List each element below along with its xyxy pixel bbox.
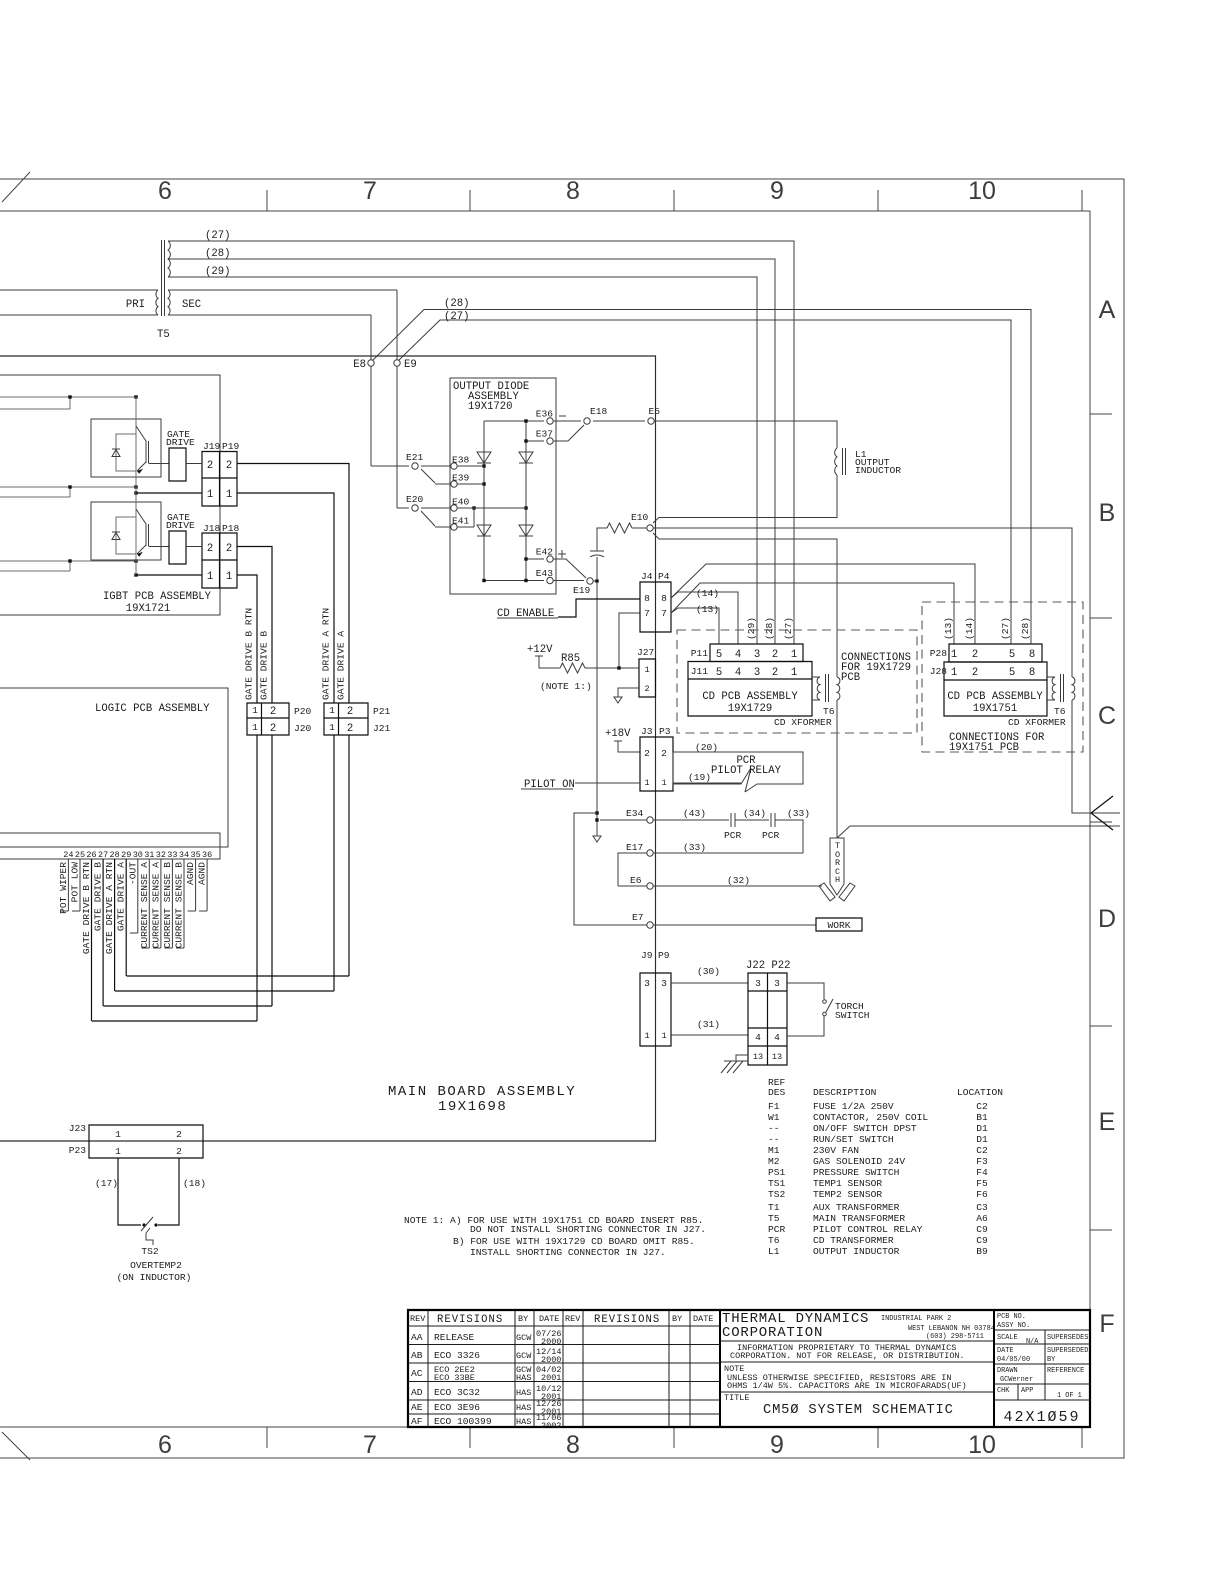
svg-text:2001: 2001	[541, 1373, 561, 1383]
svg-text:A: A	[1099, 296, 1116, 324]
svg-text:C2: C2	[976, 1101, 988, 1112]
svg-text:PRI: PRI	[126, 299, 145, 311]
svg-text:(603) 298-5711: (603) 298-5711	[926, 1333, 984, 1341]
svg-text:E10: E10	[631, 512, 649, 523]
svg-text:32: 32	[156, 850, 166, 860]
svg-text:AGND: AGND	[197, 862, 208, 885]
svg-text:AGND: AGND	[185, 862, 196, 885]
svg-text:GATE DRIVE B RTN: GATE DRIVE B RTN	[81, 862, 92, 954]
svg-text:CORPORATION: CORPORATION	[722, 1325, 823, 1341]
svg-text:8: 8	[1029, 649, 1035, 661]
svg-text:T5: T5	[157, 329, 170, 341]
svg-text:19X1751: 19X1751	[973, 703, 1018, 715]
svg-text:1: 1	[644, 665, 649, 675]
svg-text:(33): (33)	[787, 808, 810, 819]
svg-text:3: 3	[644, 978, 650, 989]
svg-text:ECO 3C32: ECO 3C32	[434, 1387, 480, 1398]
svg-text:CONTACTOR, 250V COIL: CONTACTOR, 250V COIL	[813, 1112, 928, 1123]
svg-text:HAS: HAS	[516, 1403, 531, 1413]
svg-text:(28): (28)	[444, 298, 469, 310]
svg-text:E38: E38	[452, 455, 470, 466]
svg-text:E37: E37	[536, 429, 553, 440]
svg-text:TS2: TS2	[768, 1189, 786, 1200]
svg-text:CORPORATION. NOT FOR RELEASE,: CORPORATION. NOT FOR RELEASE, OR DISTRIB…	[730, 1351, 965, 1361]
svg-text:4: 4	[774, 1032, 780, 1043]
svg-text:PCR: PCR	[768, 1224, 786, 1235]
svg-text:P21: P21	[373, 706, 391, 717]
svg-text:7: 7	[363, 177, 377, 205]
svg-text:PILOT RELAY: PILOT RELAY	[711, 765, 782, 777]
svg-text:9: 9	[770, 177, 784, 205]
svg-text:8: 8	[644, 593, 650, 604]
svg-text:J19: J19	[203, 441, 221, 452]
svg-text:INDUCTOR: INDUCTOR	[855, 465, 901, 476]
svg-text:2: 2	[176, 1129, 182, 1140]
svg-text:1: 1	[951, 667, 957, 679]
svg-text:2: 2	[772, 667, 778, 679]
svg-text:HAS: HAS	[516, 1373, 531, 1383]
svg-text:36: 36	[202, 850, 212, 860]
svg-text:19X1721: 19X1721	[126, 603, 171, 615]
svg-text:F6: F6	[976, 1189, 988, 1200]
svg-text:AF: AF	[411, 1416, 423, 1427]
svg-text:(29): (29)	[205, 266, 230, 278]
svg-text:GCWerner: GCWerner	[1000, 1376, 1033, 1384]
svg-text:(28): (28)	[205, 248, 230, 260]
svg-text:(20): (20)	[695, 742, 718, 753]
svg-text:E9: E9	[404, 359, 417, 371]
svg-text:AB: AB	[411, 1350, 423, 1361]
svg-text:HAS: HAS	[516, 1417, 531, 1427]
svg-text:P18: P18	[222, 523, 240, 534]
svg-text:30: 30	[133, 850, 143, 860]
svg-text:SCALE: SCALE	[997, 1334, 1018, 1342]
svg-text:(28): (28)	[764, 617, 775, 640]
svg-text:E39: E39	[452, 473, 470, 484]
svg-text:E36: E36	[536, 409, 554, 420]
svg-text:4: 4	[755, 1032, 761, 1043]
svg-text:SWITCH: SWITCH	[835, 1010, 870, 1021]
svg-text:(19): (19)	[688, 772, 711, 783]
svg-text:B1: B1	[976, 1112, 988, 1123]
svg-text:H: H	[835, 875, 840, 885]
svg-text:DATE: DATE	[997, 1347, 1014, 1355]
svg-text:C2: C2	[976, 1145, 988, 1156]
svg-text:HAS: HAS	[516, 1388, 531, 1398]
svg-text:2: 2	[644, 748, 650, 759]
svg-text:E5: E5	[648, 406, 660, 417]
svg-text:DATE: DATE	[539, 1314, 559, 1324]
svg-text:5: 5	[1009, 649, 1015, 661]
svg-text:GATE DRIVE B: GATE DRIVE B	[93, 862, 104, 931]
svg-text:1: 1	[329, 705, 335, 716]
svg-text:D: D	[1098, 905, 1116, 933]
svg-text:ECO 3326: ECO 3326	[434, 1350, 480, 1361]
svg-text:10: 10	[968, 177, 996, 205]
svg-text:3: 3	[754, 649, 760, 661]
svg-text:(NOTE 1:): (NOTE 1:)	[540, 681, 592, 692]
svg-text:F: F	[1099, 1310, 1114, 1338]
svg-text:19X1720: 19X1720	[468, 401, 513, 413]
svg-text:J27: J27	[637, 647, 654, 658]
svg-text:TS1: TS1	[768, 1178, 786, 1189]
svg-text:L1: L1	[768, 1246, 780, 1257]
svg-text:E7: E7	[632, 912, 644, 923]
svg-text:E18: E18	[590, 406, 608, 417]
svg-text:CD PCB ASSEMBLY: CD PCB ASSEMBLY	[947, 691, 1043, 703]
svg-text:P28: P28	[930, 648, 948, 659]
svg-text:7: 7	[661, 608, 667, 619]
svg-text:8: 8	[566, 1431, 580, 1459]
svg-text:OVERTEMP2: OVERTEMP2	[130, 1260, 182, 1271]
svg-text:2: 2	[207, 543, 213, 555]
svg-text:8: 8	[566, 177, 580, 205]
svg-text:GCW: GCW	[516, 1333, 532, 1343]
svg-text:CD TRANSFORMER: CD TRANSFORMER	[813, 1235, 894, 1246]
svg-text:A6: A6	[976, 1213, 988, 1224]
svg-text:31: 31	[144, 850, 154, 860]
svg-text:BY: BY	[1047, 1356, 1056, 1364]
svg-text:AUX TRANSFORMER: AUX TRANSFORMER	[813, 1202, 900, 1213]
svg-text:1: 1	[252, 705, 258, 716]
svg-text:J21: J21	[373, 723, 391, 734]
svg-text:GATE DRIVE A RTN: GATE DRIVE A RTN	[104, 862, 115, 954]
svg-text:E: E	[1099, 1108, 1116, 1136]
svg-text:N/A: N/A	[1026, 1338, 1039, 1346]
svg-text:OHMS 1/4W 5%. CAPACITORS ARE I: OHMS 1/4W 5%. CAPACITORS ARE IN MICROFAR…	[727, 1381, 967, 1391]
svg-text:(27): (27)	[205, 230, 230, 242]
svg-text:(30): (30)	[697, 966, 720, 977]
svg-text:5: 5	[1009, 667, 1015, 679]
svg-text:2: 2	[972, 649, 978, 661]
svg-text:REV: REV	[565, 1314, 581, 1324]
svg-text:B) FOR USE WITH 19X1729 CD BOA: B) FOR USE WITH 19X1729 CD BOARD OMIT R8…	[453, 1236, 695, 1247]
svg-text:CM5Ø SYSTEM SCHEMATIC: CM5Ø SYSTEM SCHEMATIC	[763, 1402, 954, 1418]
svg-text:P20: P20	[294, 706, 312, 717]
svg-text:ECO 33BE: ECO 33BE	[434, 1373, 475, 1383]
svg-text:19X1729: 19X1729	[728, 703, 773, 715]
svg-text:ECO 3E96: ECO 3E96	[434, 1402, 480, 1413]
svg-text:3: 3	[774, 978, 780, 989]
svg-text:MAIN BOARD ASSEMBLY: MAIN BOARD ASSEMBLY	[388, 1084, 576, 1100]
svg-text:J4: J4	[641, 571, 653, 582]
svg-text:J11: J11	[691, 666, 709, 677]
svg-text:--: --	[768, 1123, 780, 1134]
svg-text:APP: APP	[1021, 1387, 1033, 1395]
svg-text:2: 2	[270, 723, 276, 735]
svg-text:-OUT: -OUT	[127, 862, 138, 885]
svg-text:J28: J28	[930, 666, 948, 677]
svg-text:CURRENT SENSE B: CURRENT SENSE B	[174, 862, 185, 949]
svg-text:13: 13	[753, 1052, 763, 1062]
svg-text:6: 6	[158, 1431, 172, 1459]
svg-text:GATE DRIVE B: GATE DRIVE B	[259, 631, 270, 700]
svg-text:E6: E6	[630, 875, 642, 886]
svg-text:P3: P3	[659, 726, 671, 737]
svg-text:(17): (17)	[95, 1178, 118, 1189]
svg-text:REVISIONS: REVISIONS	[437, 1314, 503, 1326]
svg-text:(27): (27)	[444, 311, 469, 323]
svg-text:DO NOT INSTALL SHORTING CONNEC: DO NOT INSTALL SHORTING CONNECTOR IN J27…	[470, 1224, 706, 1235]
svg-text:LOGIC PCB ASSEMBLY: LOGIC PCB ASSEMBLY	[95, 703, 210, 715]
svg-text:1 OF 1: 1 OF 1	[1057, 1392, 1082, 1400]
svg-text:24: 24	[63, 850, 73, 860]
svg-text:1: 1	[252, 722, 258, 733]
svg-text:13: 13	[772, 1052, 782, 1062]
svg-text:F4: F4	[976, 1167, 988, 1178]
svg-text:IGBT PCB ASSEMBLY: IGBT PCB ASSEMBLY	[103, 591, 212, 603]
svg-text:DES: DES	[768, 1087, 786, 1098]
svg-text:(29): (29)	[746, 617, 757, 640]
svg-text:04/05/00: 04/05/00	[997, 1356, 1030, 1364]
svg-text:1: 1	[661, 778, 666, 788]
svg-text:(13): (13)	[943, 617, 954, 640]
svg-text:1: 1	[115, 1129, 121, 1140]
svg-text:J9: J9	[641, 950, 653, 961]
svg-text:(31): (31)	[697, 1019, 720, 1030]
svg-text:GATE DRIVE A: GATE DRIVE A	[336, 631, 347, 700]
svg-text:1: 1	[207, 571, 213, 583]
svg-text:1: 1	[951, 649, 957, 661]
svg-text:8: 8	[661, 593, 667, 604]
svg-text:2000: 2000	[541, 1337, 561, 1347]
svg-text:CURRENT SENSE A: CURRENT SENSE A	[139, 862, 150, 949]
svg-text:E20: E20	[406, 494, 424, 505]
svg-text:19X1698: 19X1698	[438, 1099, 507, 1115]
svg-text:REV: REV	[410, 1314, 426, 1324]
svg-text:AE: AE	[411, 1402, 423, 1413]
svg-text:ECO 100399: ECO 100399	[434, 1416, 492, 1427]
svg-text:GATE DRIVE A RTN: GATE DRIVE A RTN	[321, 608, 332, 700]
svg-text:M2: M2	[768, 1156, 780, 1167]
svg-text:BY: BY	[672, 1314, 682, 1324]
svg-text:2: 2	[226, 543, 232, 555]
svg-text:230V FAN: 230V FAN	[813, 1145, 859, 1156]
svg-text:D1: D1	[976, 1134, 988, 1145]
svg-text:6: 6	[158, 177, 172, 205]
svg-text:AC: AC	[411, 1368, 423, 1379]
svg-text:GCW: GCW	[516, 1351, 532, 1361]
svg-text:INDUSTRIAL PARK 2: INDUSTRIAL PARK 2	[881, 1315, 951, 1323]
svg-text:DESCRIPTION: DESCRIPTION	[813, 1087, 876, 1098]
svg-text:--: --	[768, 1134, 780, 1145]
svg-text:E41: E41	[452, 516, 470, 527]
svg-text:29: 29	[121, 850, 131, 860]
svg-text:9: 9	[770, 1431, 784, 1459]
svg-text:PRESSURE SWITCH: PRESSURE SWITCH	[813, 1167, 899, 1178]
svg-text:E19: E19	[573, 585, 591, 596]
svg-text:33: 33	[167, 850, 177, 860]
svg-text:E17: E17	[626, 842, 643, 853]
svg-text:3: 3	[755, 978, 761, 989]
svg-text:5: 5	[716, 667, 722, 679]
svg-text:DRIVE: DRIVE	[166, 520, 195, 531]
svg-text:(32): (32)	[727, 875, 750, 886]
svg-text:8: 8	[1029, 667, 1035, 679]
svg-text:CURRENT SENSE A: CURRENT SENSE A	[150, 862, 161, 949]
svg-text:REFERENCE: REFERENCE	[1047, 1367, 1084, 1375]
svg-text:1: 1	[115, 1146, 121, 1157]
svg-text:(14): (14)	[964, 617, 975, 640]
svg-text:J22 P22: J22 P22	[746, 960, 791, 972]
svg-text:INSTALL SHORTING CONNECTOR IN: INSTALL SHORTING CONNECTOR IN J27.	[470, 1247, 666, 1258]
svg-text:7: 7	[363, 1431, 377, 1459]
svg-text:(18): (18)	[183, 1178, 206, 1189]
svg-text:WEST LEBANON NH 03784: WEST LEBANON NH 03784	[908, 1325, 995, 1333]
svg-text:T6: T6	[823, 706, 835, 717]
svg-text:POT WIPER: POT WIPER	[58, 862, 69, 914]
svg-text:+18V: +18V	[605, 728, 631, 740]
svg-text:P4: P4	[658, 571, 670, 582]
svg-text:PCB: PCB	[841, 672, 860, 684]
svg-text:DRIVE: DRIVE	[166, 437, 195, 448]
svg-text:(27): (27)	[1000, 617, 1011, 640]
svg-text:1: 1	[791, 649, 797, 661]
svg-text:26: 26	[86, 850, 96, 860]
svg-text:C9: C9	[976, 1235, 988, 1246]
svg-text:2: 2	[661, 748, 667, 759]
svg-text:1: 1	[661, 1031, 666, 1041]
svg-text:1: 1	[791, 667, 797, 679]
svg-text:TEMP1 SENSOR: TEMP1 SENSOR	[813, 1178, 882, 1189]
svg-text:2: 2	[772, 649, 778, 661]
svg-text:2: 2	[226, 460, 232, 472]
svg-text:CD XFORMER: CD XFORMER	[1008, 717, 1066, 728]
svg-text:2000: 2000	[541, 1355, 561, 1365]
svg-text:MAIN TRANSFORMER: MAIN TRANSFORMER	[813, 1213, 905, 1224]
svg-text:DATE: DATE	[693, 1314, 713, 1324]
svg-text:P23: P23	[69, 1145, 87, 1156]
svg-text:E43: E43	[536, 568, 554, 579]
svg-text:SEC: SEC	[182, 299, 201, 311]
svg-text:T5: T5	[768, 1213, 780, 1224]
svg-text:2: 2	[644, 684, 649, 694]
svg-text:CURRENT SENSE B: CURRENT SENSE B	[162, 862, 173, 949]
svg-text:P11: P11	[691, 648, 709, 659]
svg-text:4: 4	[735, 667, 741, 679]
svg-text:PCR: PCR	[762, 830, 780, 841]
svg-text:PCB NO.: PCB NO.	[997, 1313, 1026, 1321]
svg-text:1: 1	[644, 778, 649, 788]
svg-text:E34: E34	[626, 808, 644, 819]
svg-text:GATE DRIVE A: GATE DRIVE A	[116, 862, 127, 931]
svg-text:T1: T1	[768, 1202, 780, 1213]
svg-text:DRAWN: DRAWN	[997, 1367, 1018, 1375]
svg-text:PILOT CONTROL RELAY: PILOT CONTROL RELAY	[813, 1224, 923, 1235]
svg-text:35: 35	[190, 850, 200, 860]
svg-text:W1: W1	[768, 1112, 780, 1123]
svg-text:2: 2	[270, 706, 276, 718]
svg-text:3: 3	[661, 978, 667, 989]
svg-text:2: 2	[207, 460, 213, 472]
svg-text:RELEASE: RELEASE	[434, 1332, 475, 1343]
svg-text:2: 2	[347, 723, 353, 735]
svg-text:POT LOW: POT LOW	[70, 862, 81, 903]
svg-text:(34): (34)	[743, 808, 766, 819]
svg-text:10: 10	[968, 1431, 996, 1459]
svg-text:TITLE: TITLE	[724, 1393, 750, 1403]
svg-text:WORK: WORK	[827, 920, 850, 931]
svg-text:2: 2	[972, 667, 978, 679]
svg-text:AD: AD	[411, 1387, 423, 1398]
svg-text:C9: C9	[976, 1224, 988, 1235]
svg-text:(27): (27)	[783, 617, 794, 640]
svg-text:2002: 2002	[541, 1421, 561, 1431]
svg-text:T6: T6	[768, 1235, 780, 1246]
svg-text:34: 34	[179, 850, 189, 860]
svg-text:C3: C3	[976, 1202, 988, 1213]
svg-text:E40: E40	[452, 497, 470, 508]
svg-text:28: 28	[109, 850, 119, 860]
svg-text:M1: M1	[768, 1145, 780, 1156]
svg-text:GATE DRIVE B RTN: GATE DRIVE B RTN	[244, 608, 255, 700]
svg-text:P19: P19	[222, 441, 240, 452]
svg-text:J3: J3	[641, 726, 653, 737]
svg-text:LOCATION: LOCATION	[957, 1087, 1003, 1098]
svg-text:1: 1	[226, 489, 232, 501]
svg-text:5: 5	[716, 649, 722, 661]
svg-text:(43): (43)	[683, 808, 706, 819]
svg-text:GAS SOLENOID 24V: GAS SOLENOID 24V	[813, 1156, 905, 1167]
svg-text:4: 4	[735, 649, 741, 661]
svg-text:ASSY NO.: ASSY NO.	[997, 1322, 1030, 1330]
svg-text:7: 7	[644, 608, 650, 619]
svg-text:E42: E42	[536, 547, 554, 558]
svg-text:1: 1	[644, 1031, 649, 1041]
svg-text:REVISIONS: REVISIONS	[594, 1314, 660, 1326]
svg-text:B: B	[1099, 499, 1116, 527]
svg-text:R85: R85	[561, 653, 580, 665]
svg-text:CD XFORMER: CD XFORMER	[774, 717, 832, 728]
svg-text:FUSE 1/2A 250V: FUSE 1/2A 250V	[813, 1101, 894, 1112]
svg-text:B9: B9	[976, 1246, 988, 1257]
svg-text:(14): (14)	[696, 588, 719, 599]
svg-text:+12V: +12V	[527, 644, 553, 656]
svg-text:2: 2	[176, 1146, 182, 1157]
svg-text:T6: T6	[1054, 706, 1066, 717]
svg-text:42X1Ø59: 42X1Ø59	[1003, 1409, 1080, 1426]
svg-text:(13): (13)	[696, 604, 719, 615]
svg-text:AA: AA	[411, 1332, 423, 1343]
svg-text:RUN/SET SWITCH: RUN/SET SWITCH	[813, 1134, 894, 1145]
svg-text:D1: D1	[976, 1123, 988, 1134]
svg-text:SUPERSEDES: SUPERSEDES	[1047, 1334, 1088, 1342]
svg-text:E8: E8	[353, 359, 366, 371]
svg-text:F1: F1	[768, 1101, 780, 1112]
svg-text:3: 3	[754, 667, 760, 679]
svg-text:PCR: PCR	[724, 830, 742, 841]
svg-text:1: 1	[329, 722, 335, 733]
svg-text:J18: J18	[203, 523, 221, 534]
svg-text:J20: J20	[294, 723, 312, 734]
svg-text:F3: F3	[976, 1156, 988, 1167]
svg-text:P9: P9	[658, 950, 670, 961]
svg-text:ON/OFF SWITCH DPST: ON/OFF SWITCH DPST	[813, 1123, 917, 1134]
svg-text:E21: E21	[406, 452, 424, 463]
svg-text:CHK: CHK	[997, 1387, 1010, 1395]
svg-text:(ON INDUCTOR): (ON INDUCTOR)	[117, 1272, 192, 1283]
svg-text:(28): (28)	[1020, 617, 1031, 640]
svg-text:F5: F5	[976, 1178, 988, 1189]
svg-text:19X1751 PCB: 19X1751 PCB	[949, 742, 1019, 754]
svg-text:PS1: PS1	[768, 1167, 786, 1178]
svg-text:25: 25	[75, 850, 85, 860]
svg-text:CD PCB ASSEMBLY: CD PCB ASSEMBLY	[702, 691, 798, 703]
svg-text:SUPERSEDED: SUPERSEDED	[1047, 1347, 1088, 1355]
svg-text:J23: J23	[69, 1123, 87, 1134]
svg-text:1: 1	[207, 489, 213, 501]
svg-text:OUTPUT INDUCTOR: OUTPUT INDUCTOR	[813, 1246, 900, 1257]
